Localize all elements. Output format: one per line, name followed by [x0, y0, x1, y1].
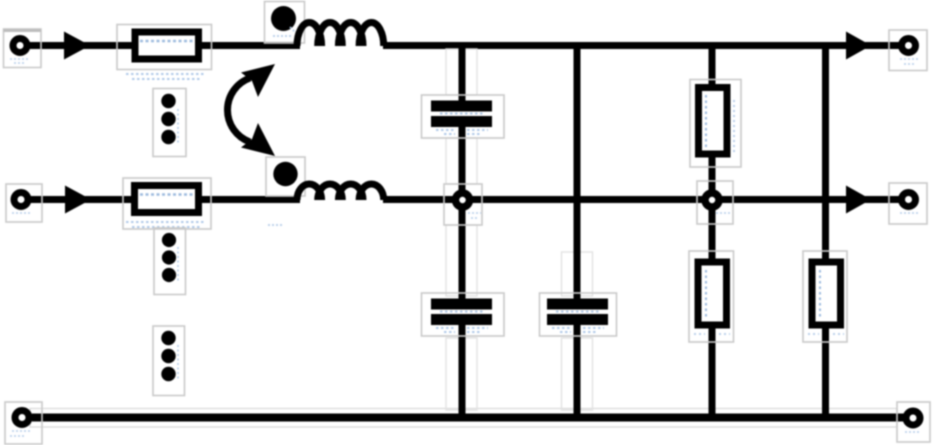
terminal P1 (top left)	[4, 29, 42, 68]
wire column B stem	[562, 46, 593, 418]
continuation dots E3	[153, 326, 185, 396]
wire middle rail	[31, 196, 899, 203]
terminal P2 (middle left)	[6, 184, 42, 222]
polarity dot (bottom inductor)	[266, 157, 305, 225]
wire bottom rail	[30, 409, 904, 428]
arrow middle-left	[65, 186, 91, 214]
resistor R2	[123, 178, 211, 229]
node J2 (column C / middle rail)	[697, 181, 733, 224]
continuation dots E1	[153, 89, 186, 157]
arrow middle-right	[846, 186, 871, 214]
capacitor C2 (column A lower)	[422, 293, 505, 336]
inductor L1	[297, 22, 384, 46]
arrow top-right	[846, 32, 871, 60]
inductor L2	[297, 184, 384, 200]
resistor R4 (column C lower)	[689, 251, 734, 342]
terminal P4 (middle right)	[889, 183, 927, 224]
wire top rail	[30, 42, 899, 49]
capacitor C3 (column B)	[540, 293, 617, 336]
arrow top-left	[64, 32, 90, 60]
terminal P3 (top right)	[889, 30, 927, 71]
mutual coupling arrow	[227, 64, 275, 156]
polarity dot (top inductor)	[265, 2, 305, 44]
terminal P5 (bottom left)	[5, 402, 42, 444]
resistor R5 (column D)	[803, 251, 847, 342]
wire column D stem	[822, 46, 829, 418]
terminal P6 (bottom right)	[897, 402, 930, 442]
resistor R3 (column C upper)	[690, 80, 741, 168]
wire column C stem	[709, 46, 716, 418]
capacitor C1 (column A upper)	[422, 95, 505, 138]
continuation dots E2	[154, 228, 186, 295]
wire column A stem	[446, 46, 477, 418]
node J1 (column A / middle rail)	[444, 184, 482, 225]
resistor R1	[117, 25, 212, 80]
